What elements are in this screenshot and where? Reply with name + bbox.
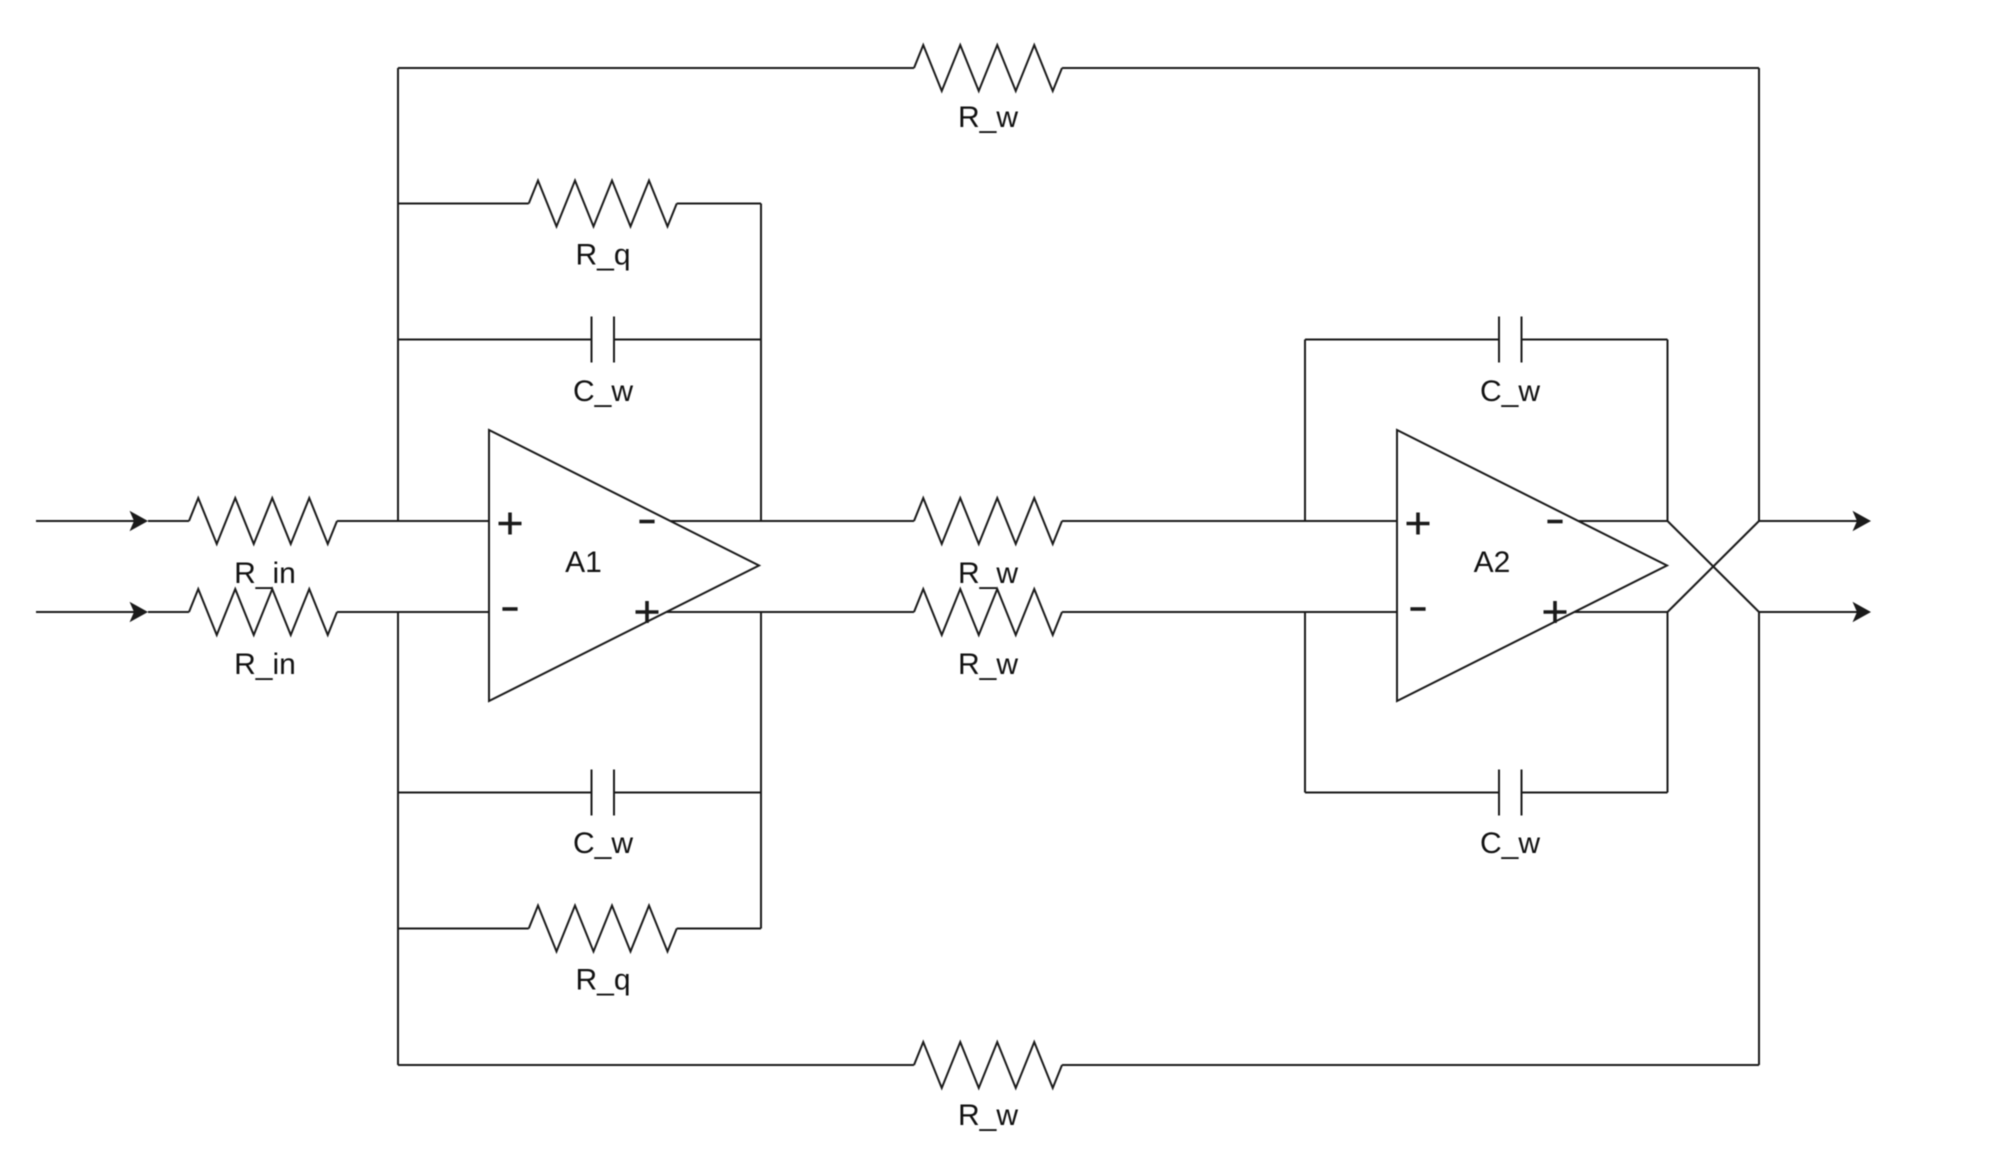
wire (337, 611, 489, 613)
wire output bottom (1759, 611, 1862, 613)
wire C_w top-right lead left (1305, 339, 1499, 341)
wire to A2 plus input (1062, 520, 1397, 522)
svg-text:R_q: R_q (575, 964, 630, 997)
resistor R_q top (529, 181, 677, 227)
wire (148, 520, 189, 522)
wire A2 top output (1578, 520, 1667, 522)
wire (337, 520, 489, 522)
wire A2 left column lower (1304, 612, 1306, 793)
svg-text:A2: A2 (1474, 546, 1511, 579)
wire left bus upper (397, 68, 399, 521)
wire C_w top-left lead left (398, 339, 592, 341)
A2 minus output marker (1547, 520, 1562, 524)
A1 minus input marker (502, 607, 517, 611)
wire C_w top-right lead right (1522, 339, 1668, 341)
op-amp A2 (1397, 430, 1667, 701)
resistor R_w bottom (914, 1042, 1062, 1088)
wire C_w bottom-left lead right (614, 792, 761, 794)
A1 plus input marker (499, 522, 522, 526)
svg-text:R_w: R_w (958, 1099, 1018, 1132)
resistor R_in bottom (189, 589, 337, 635)
wire R_q top lead right (677, 203, 761, 205)
wire bottom feedback left (398, 1064, 914, 1066)
svg-text:R_in: R_in (234, 648, 296, 681)
resistor R_w middle bottom (914, 589, 1062, 635)
svg-text:A1: A1 (565, 546, 602, 579)
wire output top (1759, 520, 1862, 522)
A2 plus output marker (1544, 610, 1567, 614)
wire A2 right column lower (1667, 612, 1669, 793)
wire R_q bottom lead right (677, 928, 761, 930)
svg-text:C_w: C_w (573, 375, 633, 408)
resistor R_in top (189, 498, 337, 544)
wire A2 right column upper (1667, 340, 1669, 522)
wire right bus upper (1758, 68, 1760, 521)
resistor R_q bottom (529, 906, 677, 952)
wire input bottom (36, 611, 146, 613)
A2 minus input marker (1410, 607, 1425, 611)
capacitor C_w top-right (1498, 317, 1500, 363)
arrowhead output bottom (1853, 602, 1872, 622)
op-amp A1 (489, 430, 759, 701)
wire C_w bottom-right lead right (1522, 792, 1668, 794)
resistor R_w top (914, 45, 1062, 91)
wire A1 top output (670, 520, 914, 522)
capacitor C_w bottom-right (1498, 770, 1500, 816)
wire input top (36, 520, 146, 522)
resistor R_w middle top (914, 498, 1062, 544)
wire A1 feedback column upper (760, 204, 762, 522)
wire C_w top-left lead right (614, 339, 761, 341)
A2 plus input marker (1407, 522, 1430, 526)
wire A1 bottom output (666, 611, 914, 613)
svg-text:R_in: R_in (234, 557, 296, 590)
wire bottom feedback right (1062, 1064, 1759, 1066)
svg-text:R_w: R_w (958, 557, 1018, 590)
wire top feedback right (1062, 67, 1759, 69)
wire left bus lower (397, 612, 399, 1065)
wire A1 feedback column lower (760, 612, 762, 929)
wire crossing top-to-bottom (1668, 521, 1760, 612)
svg-text:R_w: R_w (958, 648, 1018, 681)
A1 plus output marker (636, 610, 659, 614)
svg-text:C_w: C_w (1480, 375, 1540, 408)
wire crossing bottom-to-top (1668, 521, 1760, 612)
wire R_q bottom lead left (398, 928, 529, 930)
wire R_q top lead left (398, 203, 529, 205)
svg-text:C_w: C_w (1480, 827, 1540, 860)
capacitor C_w bottom-left (591, 770, 593, 816)
wire A2 left column upper (1304, 340, 1306, 522)
A1 minus output marker (639, 520, 654, 524)
wire to A2 minus input (1062, 611, 1397, 613)
arrowhead input top (130, 511, 149, 531)
arrowhead input bottom (130, 602, 149, 622)
svg-text:R_q: R_q (575, 239, 630, 272)
wire right bus lower (1758, 612, 1760, 1065)
wire top feedback left (398, 67, 914, 69)
arrowhead output top (1853, 511, 1872, 531)
wire C_w bottom-right lead left (1305, 792, 1499, 794)
wire A2 bottom output (1574, 611, 1667, 613)
wire C_w bottom-left lead left (398, 792, 592, 794)
svg-text:R_w: R_w (958, 101, 1018, 134)
capacitor C_w top-left (591, 317, 593, 363)
wire (148, 611, 189, 613)
svg-text:C_w: C_w (573, 827, 633, 860)
